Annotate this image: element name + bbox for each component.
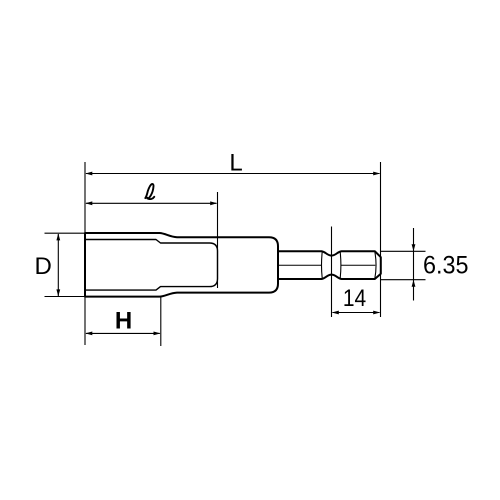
socket bore inner <box>86 240 218 291</box>
groove boundary arc right <box>339 252 342 278</box>
svg-text:L: L <box>229 150 242 177</box>
groove boundary arc left <box>321 252 324 278</box>
dimension line ell <box>86 202 217 204</box>
dimension line L <box>86 173 380 175</box>
extension line left (x=85) <box>84 162 86 345</box>
shank hex outline <box>276 251 381 279</box>
label ell <box>145 184 154 199</box>
extension line 6.35-bottom <box>381 279 426 281</box>
svg-text:14: 14 <box>343 285 366 312</box>
shank hex middle line left <box>277 264 322 266</box>
socket body outer <box>85 233 278 297</box>
extension line D-bottom <box>45 296 85 298</box>
svg-text:6.35: 6.35 <box>423 252 469 280</box>
dimension line D <box>57 234 59 296</box>
extension line 6.35-top <box>381 250 426 252</box>
extension line ell (x=217.5) <box>217 192 219 288</box>
dimension line 14 <box>333 312 380 314</box>
extension line D-top <box>45 232 85 234</box>
shank hex middle line right <box>341 264 376 266</box>
extension line H-right (x=160.8) <box>160 297 162 346</box>
dimension 6.35 arrows <box>413 228 415 301</box>
extension line 14-left (x=331.5) <box>331 227 333 318</box>
svg-text:H: H <box>115 308 132 335</box>
chamfer cone arc <box>375 252 376 279</box>
extension line right (x=380.5) <box>380 162 382 317</box>
svg-text:D: D <box>35 253 52 280</box>
dimension line H <box>86 332 160 334</box>
